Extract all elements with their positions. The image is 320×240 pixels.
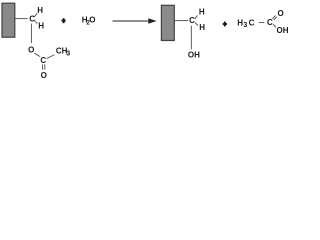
svg-text:OH: OH (277, 26, 289, 35)
svg-text:C: C (29, 14, 35, 23)
svg-text:O: O (28, 45, 34, 54)
svg-text:3: 3 (243, 22, 247, 29)
svg-text:H: H (199, 23, 205, 32)
svg-text:H: H (199, 8, 205, 17)
svg-text:H: H (37, 6, 43, 15)
svg-text:O: O (277, 9, 283, 18)
svg-text:C: C (40, 56, 46, 65)
svg-text:H: H (237, 18, 243, 27)
svg-text:O: O (89, 16, 95, 25)
svg-text:H: H (38, 21, 44, 30)
svg-text:C: C (249, 18, 255, 27)
svg-text:O: O (41, 71, 47, 80)
svg-text:C: C (267, 18, 273, 27)
svg-text:C: C (189, 16, 195, 25)
svg-text:OH: OH (188, 50, 200, 59)
svg-text:3: 3 (66, 51, 70, 58)
